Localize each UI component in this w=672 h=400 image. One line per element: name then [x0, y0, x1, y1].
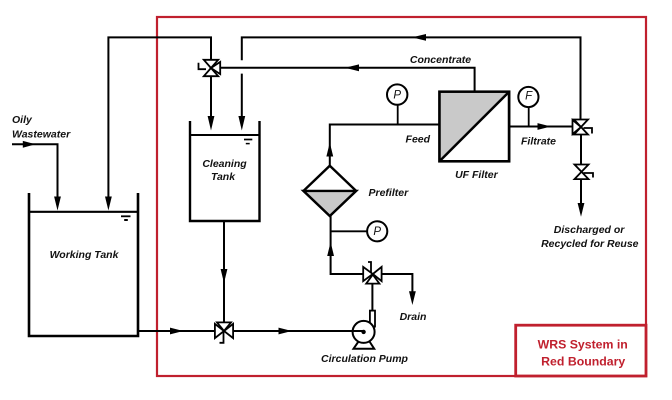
valve V3 stem	[368, 262, 371, 273]
gauge P1 circle	[387, 84, 407, 104]
gauge F1 stem	[528, 107, 530, 126]
UF filter gray upper-left	[440, 92, 510, 162]
valve V4 3-way (filtrate)	[573, 120, 589, 135]
pump P1 center dot	[361, 330, 365, 334]
valve V5 stem	[584, 173, 594, 178]
svg-text:Discharged or: Discharged or	[554, 224, 626, 236]
cleaning tank T2	[190, 121, 260, 221]
wire V2 to pump suction	[233, 330, 364, 332]
WRS label box	[516, 325, 646, 376]
pump P1 circle	[353, 321, 375, 343]
valve V2 3-way (bottom)	[215, 322, 233, 338]
wire prefilter to feed line	[330, 125, 440, 166]
pump P1 base	[354, 342, 375, 349]
pump P1 discharge nozzle	[370, 311, 375, 327]
svg-text:Circulation Pump: Circulation Pump	[321, 353, 409, 365]
wire V1 to cleaning tank	[210, 76, 212, 117]
arrow into cleaning tank (top line)	[238, 116, 245, 131]
svg-text:Working Tank: Working Tank	[50, 249, 120, 261]
wire pump discharge to V3	[371, 284, 373, 311]
arrow up to feed	[326, 143, 333, 157]
cleaning tank water line	[190, 134, 260, 136]
arrow discharge down	[578, 203, 585, 217]
svg-text:Prefilter: Prefilter	[369, 187, 410, 199]
arrow filtrate right	[538, 123, 552, 130]
red system boundary	[157, 17, 646, 376]
wire filtrate line	[509, 126, 572, 128]
svg-text:UF Filter: UF Filter	[455, 169, 498, 181]
arrow up into prefilter	[327, 242, 334, 256]
svg-text:Concentrate: Concentrate	[410, 54, 471, 66]
svg-text:Feed: Feed	[406, 134, 431, 146]
gauge P2 circle	[367, 221, 387, 241]
wire discharge outlet	[580, 179, 582, 204]
valve V1 3-way (top of cleaning tank)	[204, 60, 220, 76]
UF filter diagonal	[440, 92, 510, 162]
svg-text:WRS System in: WRS System in	[538, 337, 628, 351]
svg-text:Oily: Oily	[12, 114, 33, 126]
arrow into cleaning tank (from V1)	[208, 116, 215, 131]
UF filter outline again	[440, 92, 510, 162]
cleaning tank level symbol	[244, 139, 252, 141]
arrow cleaning outlet down	[221, 269, 228, 283]
prefilter F1 lower gray half	[304, 191, 357, 216]
wire V3 to drain	[382, 274, 413, 293]
working tank water line	[29, 211, 138, 213]
valve V2 stem	[220, 332, 224, 343]
wire cleaning tank outlet	[223, 221, 225, 322]
working tank T1	[29, 193, 138, 336]
arrow top line left	[412, 34, 426, 41]
gauge F1 circle	[518, 87, 538, 107]
prefilter F1 body	[304, 166, 357, 216]
arrow into working tank (inlet)	[54, 197, 61, 211]
wire V3 to prefilter branch	[331, 216, 364, 274]
gauge P2 stem	[331, 230, 368, 232]
svg-text:F: F	[525, 91, 533, 103]
pump suction into center	[353, 330, 364, 332]
arrow main line 1	[170, 328, 183, 335]
svg-text:Drain: Drain	[400, 311, 427, 323]
wire recycle return to working tank	[108, 37, 211, 198]
wire working tank outlet main line	[138, 330, 215, 332]
svg-text:Red Boundary: Red Boundary	[541, 354, 625, 368]
arrow inlet right	[23, 141, 36, 148]
gauge P1 stem	[397, 105, 399, 125]
UF filter M1 body	[440, 92, 510, 162]
arrow into working tank (recycle)	[105, 197, 112, 211]
wire concentrate return (UF top to V1)	[220, 68, 474, 92]
wire filtrate recycle top line	[242, 37, 581, 120]
arrow concentrate left	[345, 64, 359, 71]
working tank level symbol	[121, 215, 131, 217]
svg-text:Filtrate: Filtrate	[521, 136, 556, 148]
svg-text:P: P	[393, 89, 401, 101]
arrow main line 2	[279, 328, 292, 335]
svg-text:Recycled for Reuse: Recycled for Reuse	[541, 238, 639, 250]
valve V3 3-way (drain)	[363, 267, 381, 284]
wire oily wastewater inlet	[12, 144, 58, 198]
valve V1 stem	[199, 63, 207, 69]
arrow drain down	[409, 291, 416, 305]
wire V4 to V5	[580, 135, 582, 165]
svg-text:Cleaning: Cleaning	[202, 158, 247, 170]
valve V5 (discharge)	[575, 165, 589, 180]
svg-text:Tank: Tank	[211, 171, 236, 183]
svg-text:Wastewater: Wastewater	[12, 129, 71, 141]
valve V4 stem	[584, 128, 593, 134]
svg-text:P: P	[373, 226, 381, 238]
